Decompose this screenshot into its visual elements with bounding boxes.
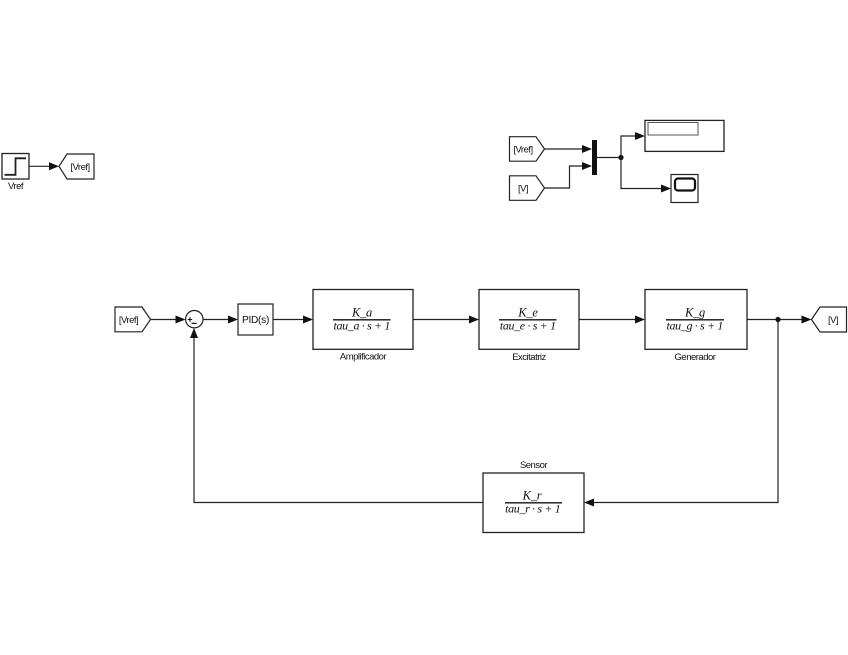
from tag [Vref] top-right: [510, 137, 545, 162]
step source Vref: [2, 154, 29, 180]
wire [Vref] to sum: [151, 316, 186, 324]
wire from [V] tag to mux: [545, 162, 593, 188]
wire from [Vref] tag to mux: [545, 145, 593, 153]
transfer function Sensor: [483, 473, 584, 533]
mux: [592, 140, 597, 175]
svg-text:Vref: Vref: [8, 181, 24, 192]
svg-text:Amplificador: Amplificador: [340, 352, 387, 363]
transfer function Generador: [645, 290, 747, 350]
PID controller: [238, 304, 273, 335]
svg-text:K_g: K_g: [684, 306, 705, 320]
svg-text:tau_g · s + 1: tau_g · s + 1: [667, 319, 724, 333]
svg-text:[V]: [V]: [828, 315, 838, 326]
display block: [645, 120, 724, 151]
wire Generador to goto [V]: [747, 316, 812, 324]
wire step to goto: [29, 162, 59, 170]
svg-text:[Vref]: [Vref]: [119, 315, 138, 326]
svg-text:tau_e · s + 1: tau_e · s + 1: [500, 319, 556, 333]
svg-text:K_e: K_e: [517, 306, 538, 320]
goto tag [Vref] top-left: [59, 154, 94, 179]
goto tag [V]: [812, 307, 847, 332]
svg-text:Sensor: Sensor: [520, 460, 547, 471]
wire PID to Amplificador: [273, 316, 313, 324]
svg-text:[Vref]: [Vref]: [70, 162, 89, 173]
wire junction to display: [621, 132, 645, 158]
svg-text:tau_r · s + 1: tau_r · s + 1: [505, 502, 560, 516]
junction dot: [618, 155, 623, 160]
wire junction to scope: [621, 158, 671, 193]
svg-text:K_a: K_a: [351, 306, 372, 320]
transfer function Excitatriz: [479, 290, 579, 350]
svg-text:PID(s): PID(s): [242, 315, 269, 326]
svg-text:[Vref]: [Vref]: [513, 145, 532, 156]
transfer function Amplificador: [313, 290, 413, 350]
feedback wire Sensor to sum: [190, 328, 483, 503]
wire mux to junction: [597, 157, 621, 159]
wire Excitatriz to Generador: [579, 316, 645, 324]
wire sum to PID: [203, 316, 239, 324]
wire Amplificador to Excitatriz: [413, 316, 479, 324]
scope block: [671, 175, 698, 203]
svg-text:K_r: K_r: [522, 489, 542, 503]
from tag [V] top-right: [510, 176, 545, 201]
feedback wire to Sensor: [584, 320, 778, 507]
svg-text:tau_a · s + 1: tau_a · s + 1: [334, 319, 391, 333]
sum junction: [186, 311, 203, 328]
svg-text:Generador: Generador: [675, 352, 716, 363]
svg-text:[V]: [V]: [518, 184, 528, 195]
from tag [Vref] main loop: [115, 307, 151, 332]
svg-text:Excitatriz: Excitatriz: [512, 352, 546, 363]
junction dot output: [775, 317, 780, 322]
